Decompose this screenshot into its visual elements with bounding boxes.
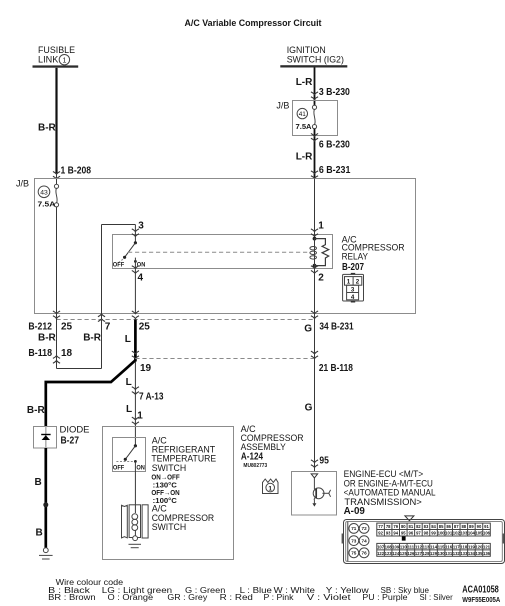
svg-text:112: 112 — [415, 544, 422, 549]
svg-text:7: 7 — [105, 321, 111, 332]
svg-text:L: L — [125, 334, 131, 345]
svg-text:2: 2 — [318, 273, 324, 284]
svg-text:92: 92 — [378, 531, 383, 536]
svg-text:43: 43 — [40, 189, 48, 196]
svg-text:1: 1 — [62, 58, 66, 65]
svg-text:L-R: L-R — [296, 152, 313, 163]
svg-text:B-212: B-212 — [28, 321, 52, 332]
svg-text:95: 95 — [401, 531, 406, 536]
svg-text:119: 119 — [468, 544, 475, 549]
svg-text:135: 135 — [475, 551, 483, 556]
svg-text:L: L — [126, 377, 132, 388]
svg-text:7.5A: 7.5A — [296, 122, 313, 131]
svg-text:25: 25 — [139, 321, 151, 332]
svg-text:7 A-13: 7 A-13 — [139, 392, 164, 403]
svg-text:136: 136 — [483, 551, 491, 556]
svg-text:LINK: LINK — [38, 55, 58, 65]
svg-text:77: 77 — [378, 524, 383, 529]
svg-text:107: 107 — [377, 544, 385, 549]
svg-text:121: 121 — [483, 544, 491, 549]
svg-text:87: 87 — [454, 524, 459, 529]
svg-text:108: 108 — [385, 544, 393, 549]
svg-text:L: L — [126, 404, 132, 415]
svg-text:B: B — [35, 477, 42, 488]
svg-text:71: 71 — [351, 526, 357, 531]
svg-text:3: 3 — [138, 220, 144, 231]
svg-text:6 B-231: 6 B-231 — [319, 165, 351, 176]
svg-text:73: 73 — [351, 538, 357, 543]
svg-text:95: 95 — [319, 455, 329, 466]
svg-text:116: 116 — [445, 544, 452, 549]
svg-text:93: 93 — [386, 531, 391, 536]
svg-text:134: 134 — [468, 551, 476, 556]
svg-text:SWITCH: SWITCH — [152, 463, 187, 473]
svg-text:83: 83 — [424, 524, 429, 529]
svg-text:G: G — [305, 403, 313, 414]
svg-text:A-124: A-124 — [241, 451, 263, 462]
svg-text:105: 105 — [475, 531, 483, 536]
svg-text:76: 76 — [362, 551, 368, 556]
svg-text:2: 2 — [356, 279, 360, 286]
svg-text:B-R: B-R — [83, 333, 102, 344]
svg-text:PU : Purple: PU : Purple — [362, 593, 408, 602]
svg-text:1: 1 — [268, 485, 272, 492]
svg-text:104: 104 — [468, 531, 476, 536]
svg-text:90: 90 — [477, 524, 482, 529]
svg-text:89: 89 — [469, 524, 474, 529]
svg-text:OFF: OFF — [113, 465, 124, 472]
svg-text:86: 86 — [446, 524, 451, 529]
svg-text:19: 19 — [140, 363, 152, 374]
svg-text:85: 85 — [439, 524, 444, 529]
svg-text:B-R: B-R — [38, 123, 57, 134]
svg-text:109: 109 — [392, 544, 400, 549]
svg-text:133: 133 — [460, 551, 468, 556]
svg-text:4: 4 — [138, 273, 144, 284]
svg-text:117: 117 — [453, 544, 460, 549]
svg-text:SWITCH (IG2): SWITCH (IG2) — [287, 55, 344, 65]
svg-text:118: 118 — [460, 544, 467, 549]
svg-text:A/C Variable Compressor Circui: A/C Variable Compressor Circuit — [185, 18, 322, 28]
svg-text:110: 110 — [400, 544, 407, 549]
svg-text:100: 100 — [438, 531, 446, 536]
svg-text:B-207: B-207 — [342, 262, 364, 273]
svg-text:124: 124 — [392, 551, 400, 556]
svg-text:75: 75 — [351, 551, 357, 556]
svg-text:GR : Grey: GR : Grey — [167, 593, 207, 602]
svg-text:SI : Silver: SI : Silver — [420, 593, 454, 602]
svg-text:6 B-230: 6 B-230 — [319, 140, 350, 151]
svg-text:101: 101 — [445, 531, 453, 536]
svg-text:126: 126 — [407, 551, 415, 556]
svg-text:ON: ON — [137, 262, 146, 269]
svg-text:V : Violet: V : Violet — [307, 593, 352, 602]
svg-text:78: 78 — [386, 524, 391, 529]
svg-text:74: 74 — [362, 538, 368, 543]
svg-text:96: 96 — [409, 531, 414, 536]
svg-text:1: 1 — [318, 220, 324, 231]
svg-text:1 B-208: 1 B-208 — [61, 165, 92, 176]
svg-text:106: 106 — [483, 531, 491, 536]
svg-text:B-R: B-R — [38, 333, 57, 344]
svg-text:102: 102 — [453, 531, 461, 536]
svg-text:P : Pink: P : Pink — [264, 593, 295, 602]
svg-text:7.5A: 7.5A — [38, 200, 56, 209]
svg-text:L-R: L-R — [296, 77, 313, 88]
svg-text:B-R: B-R — [27, 405, 46, 416]
svg-text:DIODE: DIODE — [60, 424, 90, 434]
svg-text:127: 127 — [415, 551, 423, 556]
svg-text:IGNITION: IGNITION — [287, 45, 326, 55]
svg-text:128: 128 — [422, 551, 430, 556]
svg-text:J/B: J/B — [16, 178, 29, 188]
svg-text:FUSIBLE: FUSIBLE — [38, 45, 75, 55]
svg-text:1: 1 — [137, 411, 143, 422]
svg-text:113: 113 — [423, 544, 430, 549]
svg-text:97: 97 — [416, 531, 421, 536]
svg-text:103: 103 — [460, 531, 468, 536]
svg-text:OFF: OFF — [113, 262, 124, 269]
svg-text:72: 72 — [362, 526, 368, 531]
svg-text:ON: ON — [136, 465, 145, 472]
svg-text:MU802773: MU802773 — [243, 463, 267, 469]
svg-text:1: 1 — [347, 279, 351, 286]
svg-text:3: 3 — [351, 287, 355, 294]
svg-text:82: 82 — [416, 524, 421, 529]
svg-text:25: 25 — [61, 321, 73, 332]
svg-text:125: 125 — [400, 551, 408, 556]
svg-text:114: 114 — [430, 544, 437, 549]
svg-text:131: 131 — [445, 551, 453, 556]
svg-text:111: 111 — [408, 544, 415, 549]
svg-text:G: G — [304, 324, 312, 335]
svg-text:79: 79 — [393, 524, 398, 529]
svg-text:122: 122 — [377, 551, 385, 556]
svg-text:94: 94 — [393, 531, 398, 536]
svg-text:SWITCH: SWITCH — [152, 522, 187, 532]
svg-text:80: 80 — [401, 524, 406, 529]
svg-text:R : Red: R : Red — [220, 593, 253, 602]
svg-text:88: 88 — [461, 524, 466, 529]
svg-text:129: 129 — [430, 551, 438, 556]
svg-text:132: 132 — [453, 551, 461, 556]
svg-text:ACA01058: ACA01058 — [462, 584, 499, 595]
svg-text:120: 120 — [475, 544, 483, 549]
svg-text:115: 115 — [438, 544, 445, 549]
svg-text:4: 4 — [351, 294, 355, 301]
svg-text:81: 81 — [409, 524, 414, 529]
svg-text:91: 91 — [484, 524, 489, 529]
svg-text:99: 99 — [431, 531, 436, 536]
svg-text:A-09: A-09 — [344, 506, 366, 517]
svg-text:B-27: B-27 — [61, 436, 80, 447]
svg-text:21 B-118: 21 B-118 — [319, 363, 353, 374]
svg-text:98: 98 — [424, 531, 429, 536]
svg-text:18: 18 — [61, 348, 73, 359]
svg-text:3 B-230: 3 B-230 — [319, 87, 350, 98]
svg-text:34 B-231: 34 B-231 — [319, 321, 354, 332]
svg-text:84: 84 — [431, 524, 436, 529]
svg-text:J/B: J/B — [276, 100, 289, 110]
svg-text:130: 130 — [438, 551, 446, 556]
svg-text:RELAY: RELAY — [342, 252, 368, 262]
svg-text:41: 41 — [299, 111, 307, 118]
svg-text:123: 123 — [385, 551, 393, 556]
svg-text:BR : Brown: BR : Brown — [48, 593, 96, 602]
svg-text:W9F55E005A: W9F55E005A — [462, 595, 500, 604]
svg-text:O : Orange: O : Orange — [108, 593, 154, 602]
svg-text:B: B — [36, 528, 43, 539]
svg-text:B-118: B-118 — [28, 348, 52, 359]
